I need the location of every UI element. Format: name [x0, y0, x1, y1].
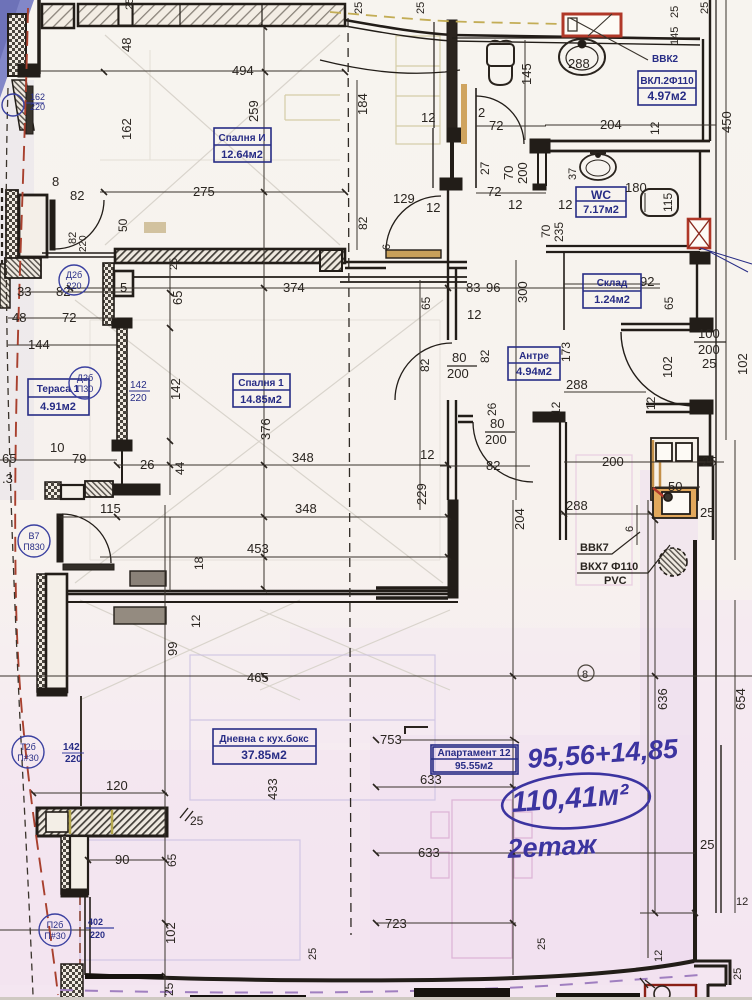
- svg-text:402: 402: [88, 917, 103, 927]
- svg-text:П2б: П2б: [47, 920, 64, 930]
- right outer wall living room: [693, 540, 697, 962]
- entrance lower wall: [690, 400, 713, 414]
- svg-text:4.97м2: 4.97м2: [648, 89, 687, 103]
- svg-text:Спалня И: Спалня И: [218, 133, 265, 144]
- bedroom2 diagonals: [105, 35, 340, 245]
- svg-text:275: 275: [193, 184, 215, 199]
- long black dashed section line x351: [348, 18, 351, 935]
- svg-text:65: 65: [2, 451, 16, 466]
- bath washbasin oval: [559, 39, 605, 75]
- kitchen shaft: [651, 438, 698, 518]
- svg-text:348: 348: [292, 450, 314, 465]
- svg-text:100: 100: [698, 326, 720, 341]
- faint olive furniture bedroom2: [285, 36, 440, 144]
- yellow dashed top: [330, 12, 562, 24]
- svg-text:145: 145: [519, 63, 534, 85]
- svg-text:450: 450: [719, 111, 734, 133]
- 72/48 line y318: [8, 317, 117, 319]
- 723 line y923: [0, 913, 697, 930]
- svg-text:12: 12: [648, 121, 662, 135]
- svg-text:80: 80: [452, 350, 466, 365]
- svg-text:72: 72: [487, 184, 501, 199]
- svg-text:14.85м2: 14.85м2: [240, 394, 282, 406]
- curved top-right outline: [345, 20, 700, 39]
- 90 line y860: [88, 859, 167, 861]
- svg-text:4.94м2: 4.94м2: [516, 366, 552, 378]
- svg-text:12: 12: [653, 950, 665, 962]
- entrance 288 line y392: [564, 391, 646, 393]
- svg-text:162: 162: [119, 118, 134, 140]
- 120 line y793: [33, 792, 167, 794]
- bedroom2 door leaf (tan) + arc: [386, 250, 441, 258]
- sklad 92 line: [564, 283, 660, 285]
- 144 line y345: [8, 344, 117, 346]
- svg-text:180: 180: [625, 180, 647, 195]
- svg-text:173: 173: [559, 342, 573, 362]
- 204 line y125 top right: [545, 124, 716, 126]
- svg-text:П830: П830: [23, 542, 45, 552]
- right outer wall top: [703, 0, 710, 141]
- svg-text:18: 18: [192, 556, 206, 570]
- 753 line y740: [400, 739, 516, 741]
- svg-text:184: 184: [355, 93, 370, 115]
- hall south walls + door to living: [458, 416, 473, 422]
- purple dashed below bottom wall: [60, 975, 700, 993]
- svg-text:Склад: Склад: [597, 278, 628, 289]
- svg-text:26: 26: [140, 457, 154, 472]
- svg-text:654: 654: [733, 688, 748, 710]
- svg-text:70: 70: [501, 166, 516, 180]
- svg-text:25: 25: [669, 6, 681, 18]
- svg-text:80: 80: [490, 416, 504, 431]
- band right extension with door: [320, 250, 342, 271]
- svg-text:82: 82: [418, 358, 432, 372]
- svg-text:25: 25: [702, 454, 716, 469]
- svg-text:79: 79: [72, 451, 86, 466]
- bathroom west wall: [451, 35, 454, 130]
- svg-text:753: 753: [380, 732, 402, 747]
- svg-text:12: 12: [508, 197, 522, 212]
- svg-text:50: 50: [116, 218, 130, 232]
- svg-text:65: 65: [419, 296, 433, 310]
- ВВК7 labels: [577, 532, 670, 587]
- bath/WC dividing wall band: [546, 141, 710, 151]
- pink wash lower left: [0, 750, 700, 985]
- svg-text:494: 494: [232, 63, 254, 78]
- left outer wall of living room (terrace side): [37, 574, 46, 692]
- svg-text:WC: WC: [591, 188, 611, 202]
- 145 vertical x525 bath: [524, 40, 526, 140]
- corridor dims: [356, 80, 358, 250]
- svg-text:Д2б: Д2б: [66, 270, 82, 280]
- fraction door sizes: [129, 326, 748, 908]
- column below balcony band: [61, 836, 70, 894]
- svg-text:82: 82: [478, 349, 492, 363]
- svg-text:ВКХ7 Ф110: ВКХ7 Ф110: [580, 561, 638, 573]
- 275 line: [100, 191, 345, 193]
- right bottom corner steps: [694, 961, 730, 1000]
- entrance top wall: [621, 324, 704, 330]
- svg-text:25: 25: [700, 837, 714, 852]
- svg-text:ВВК7: ВВК7: [580, 542, 609, 554]
- svg-text:12: 12: [420, 447, 434, 462]
- mid hatched band between bedroom2/bedroom1: [115, 249, 345, 263]
- svg-text:129: 129: [393, 191, 415, 206]
- bath door leaf + arc: [475, 88, 477, 188]
- svg-text:115: 115: [100, 501, 121, 516]
- terrace door top-left: leaf+arc: [50, 200, 55, 250]
- svg-text:PVC: PVC: [604, 575, 627, 587]
- svg-text:25: 25: [168, 258, 180, 270]
- 200 line y462: [564, 462, 724, 487]
- 636 vertical x655: [654, 520, 656, 913]
- svg-text:220: 220: [130, 393, 147, 404]
- svg-text:95.55м2: 95.55м2: [455, 761, 493, 772]
- svg-text:144: 144: [28, 337, 50, 352]
- svg-text:200: 200: [515, 162, 530, 184]
- left vertical dim x165 lower: [164, 505, 166, 1000]
- wall bedroom1/living room double lines: [67, 591, 458, 594]
- svg-text:200: 200: [447, 366, 469, 381]
- svg-text:229: 229: [414, 483, 429, 505]
- svg-text:115: 115: [661, 193, 675, 212]
- svg-text:12: 12: [189, 614, 203, 628]
- svg-text:37: 37: [567, 168, 579, 180]
- svg-text:25: 25: [699, 2, 711, 14]
- svg-text:633: 633: [418, 845, 440, 860]
- svg-text:50: 50: [668, 479, 682, 494]
- svg-text:102: 102: [735, 353, 750, 375]
- bedroom2 width 494: [40, 70, 345, 72]
- living-terrace door: [57, 514, 63, 562]
- 82 line y466 hall: [440, 465, 530, 467]
- svg-text:12: 12: [644, 396, 658, 410]
- vertical dim x513 (204/433): [512, 500, 514, 975]
- svg-text:259: 259: [246, 100, 261, 122]
- red box bottom right: [645, 985, 696, 1000]
- svg-text:65: 65: [662, 296, 676, 310]
- svg-text:288: 288: [566, 498, 588, 513]
- svg-text:8: 8: [52, 174, 59, 189]
- svg-text:220: 220: [90, 930, 105, 940]
- hatched circle (pipe): [659, 548, 687, 576]
- svg-text:2етаж: 2етаж: [506, 829, 599, 864]
- svg-text:220: 220: [78, 235, 89, 252]
- svg-text:12: 12: [558, 197, 572, 212]
- svg-text:1.24м2: 1.24м2: [594, 294, 630, 306]
- svg-text:6: 6: [624, 526, 636, 532]
- svg-text:Д2б: Д2б: [77, 373, 93, 383]
- left pillar block y190-260: [6, 190, 18, 262]
- svg-text:25: 25: [353, 2, 365, 14]
- svg-text:Т2б: Т2б: [20, 742, 36, 752]
- svg-text:723: 723: [385, 916, 407, 931]
- svg-text:453: 453: [247, 541, 269, 556]
- left vertical dim x170: [169, 263, 171, 495]
- svg-text:25: 25: [732, 968, 744, 980]
- svg-text:Антре: Антре: [519, 351, 549, 362]
- 633 line y853: [376, 852, 695, 854]
- wall stub above door: [440, 178, 462, 190]
- svg-text:44: 44: [173, 461, 187, 475]
- svg-text:25: 25: [702, 356, 716, 371]
- svg-text:90: 90: [115, 852, 129, 867]
- 450 vertical x726: [725, 0, 727, 440]
- svg-text:204: 204: [512, 508, 527, 530]
- top-left corner hatched block: [8, 14, 26, 76]
- svg-text:П#30: П#30: [44, 931, 66, 941]
- 288 line y514: [560, 513, 651, 515]
- svg-text:25: 25: [415, 2, 427, 14]
- svg-text:48: 48: [12, 310, 26, 325]
- svg-text:37.85м2: 37.85м2: [241, 748, 287, 762]
- vertical x516 upper (173/300): [515, 260, 517, 500]
- svg-text:7.17м2: 7.17м2: [583, 204, 619, 216]
- svg-text:33: 33: [17, 284, 31, 299]
- bath toilet: [487, 44, 514, 66]
- bottom-left wall cluster y480-500: [45, 482, 61, 499]
- red shaft box right (BBK7 upper): [688, 219, 710, 248]
- svg-text:27: 27: [478, 161, 492, 175]
- 453 line y557: [100, 556, 448, 558]
- svg-text:65: 65: [170, 291, 185, 305]
- entrance door arc: [621, 332, 695, 406]
- 633 line y787: [376, 786, 516, 788]
- hall SW thick corner: [448, 500, 458, 598]
- terrace vertical hatched wall: [117, 327, 127, 441]
- svg-text:12: 12: [467, 307, 481, 322]
- svg-text:200: 200: [602, 454, 624, 469]
- svg-text:82: 82: [486, 458, 500, 473]
- 374 long line y288: [20, 288, 660, 292]
- top outer wall hatched band: [42, 4, 345, 28]
- bath door tan frame: [461, 84, 467, 144]
- svg-text:25: 25: [162, 982, 176, 996]
- blue corner triangle top-left: [0, 80, 34, 500]
- svg-text:102: 102: [660, 356, 675, 378]
- svg-text:П30: П30: [77, 384, 93, 394]
- svg-text:636: 636: [655, 688, 670, 710]
- svg-text:ВКЛ.2Ф110: ВКЛ.2Ф110: [640, 76, 694, 87]
- red-brown property line: [15, 8, 58, 995]
- svg-text:12: 12: [421, 110, 435, 125]
- svg-text:В7: В7: [28, 531, 39, 541]
- svg-text:Дневна с кух.бокс: Дневна с кух.бокс: [219, 733, 309, 745]
- red shaft box top (BBK2): [563, 14, 621, 36]
- svg-text:25: 25: [190, 814, 204, 828]
- svg-text:142: 142: [63, 742, 80, 753]
- svg-text:72: 72: [62, 310, 76, 325]
- svg-text:376: 376: [258, 418, 273, 440]
- svg-text:288: 288: [568, 56, 590, 71]
- circled 8 on line 676: [578, 665, 594, 681]
- 348 line y465: [117, 464, 448, 466]
- svg-text:25: 25: [307, 948, 319, 960]
- bottom edge black fragments (next sheet): [0, 974, 752, 1000]
- svg-text:92: 92: [640, 274, 654, 289]
- bottom outer wall: [85, 961, 694, 980]
- svg-text:26: 26: [485, 402, 499, 416]
- bedroom1 diagonals: [75, 300, 443, 583]
- svg-text:2: 2: [478, 105, 485, 120]
- svg-text:25: 25: [124, 0, 136, 10]
- svg-text:25: 25: [700, 505, 714, 520]
- svg-text:96: 96: [486, 280, 500, 295]
- pink-lavender band right (kitchen strip): [640, 470, 698, 965]
- svg-text:65: 65: [165, 853, 179, 867]
- svg-text:П#30: П#30: [17, 753, 39, 763]
- WC sink: [580, 154, 616, 180]
- svg-text:102: 102: [163, 922, 178, 944]
- hall verticals: [419, 280, 421, 510]
- svg-text:83: 83: [466, 280, 480, 295]
- svg-text:12.64м2: 12.64м2: [221, 149, 263, 161]
- svg-text:142: 142: [168, 378, 183, 400]
- small bracket near 753: [405, 727, 428, 734]
- svg-text:8: 8: [582, 669, 588, 681]
- bath oval 288 label: [568, 56, 675, 212]
- svg-text:204: 204: [600, 117, 622, 132]
- black fine dashed: [6, 88, 33, 995]
- WC west wall: [530, 139, 550, 153]
- hall west wall (bedroom side): [448, 190, 456, 340]
- svg-text:145: 145: [669, 27, 681, 45]
- living room faint X: [80, 600, 450, 700]
- svg-text:48: 48: [119, 38, 134, 52]
- svg-text:235: 235: [552, 222, 566, 242]
- vertical dim x264 through bedrooms: [263, 27, 265, 589]
- 79/65 line y460: [0, 459, 117, 461]
- 115/348 line y517: [60, 516, 448, 518]
- svg-text:82: 82: [356, 216, 370, 230]
- svg-text:200: 200: [485, 432, 507, 447]
- balcony band bottom-left: [37, 808, 167, 836]
- svg-text:25: 25: [536, 938, 548, 950]
- svg-text:70: 70: [539, 224, 553, 238]
- sklad walls: [563, 252, 565, 330]
- svg-text:82: 82: [70, 188, 84, 203]
- svg-text:142: 142: [130, 380, 147, 391]
- svg-text:348: 348: [295, 501, 317, 516]
- svg-text:300: 300: [515, 281, 530, 303]
- svg-text:Спалня 1: Спалня 1: [238, 378, 284, 389]
- diagonal wall piece left: [12, 80, 34, 130]
- svg-text:6: 6: [381, 244, 393, 250]
- svg-text:288: 288: [566, 377, 588, 392]
- svg-text:12: 12: [549, 401, 563, 415]
- svg-text:465: 465: [247, 670, 269, 685]
- svg-text:12: 12: [426, 200, 440, 215]
- svg-text:12: 12: [736, 896, 748, 908]
- svg-text:99: 99: [165, 642, 180, 656]
- svg-text:10: 10: [50, 440, 64, 455]
- left step block under mid band: [103, 263, 114, 325]
- 99 vertical: [169, 517, 171, 591]
- faint pink furniture living room: dining table + chairs: [431, 455, 632, 958]
- WC toilet: [641, 189, 678, 216]
- svg-text:120: 120: [106, 778, 128, 793]
- svg-text:5: 5: [120, 280, 127, 295]
- svg-text:220: 220: [66, 281, 81, 291]
- 654 vertical x735: [734, 440, 736, 913]
- svg-text:.3: .3: [2, 471, 13, 486]
- svg-text:4.91м2: 4.91м2: [40, 401, 76, 413]
- long line y676 full width: [0, 675, 752, 677]
- svg-text:72: 72: [489, 118, 503, 133]
- svg-text:433: 433: [265, 778, 280, 800]
- svg-text:374: 374: [283, 280, 305, 295]
- WC/skлад wall: [546, 246, 700, 252]
- gray radiators: [130, 571, 166, 586]
- svg-text:Апартамент 12: Апартамент 12: [437, 748, 510, 759]
- svg-text:220: 220: [65, 754, 82, 765]
- svg-text:200: 200: [698, 342, 720, 357]
- svg-text:ВВК2: ВВК2: [652, 54, 679, 65]
- svg-text:162: 162: [30, 92, 45, 102]
